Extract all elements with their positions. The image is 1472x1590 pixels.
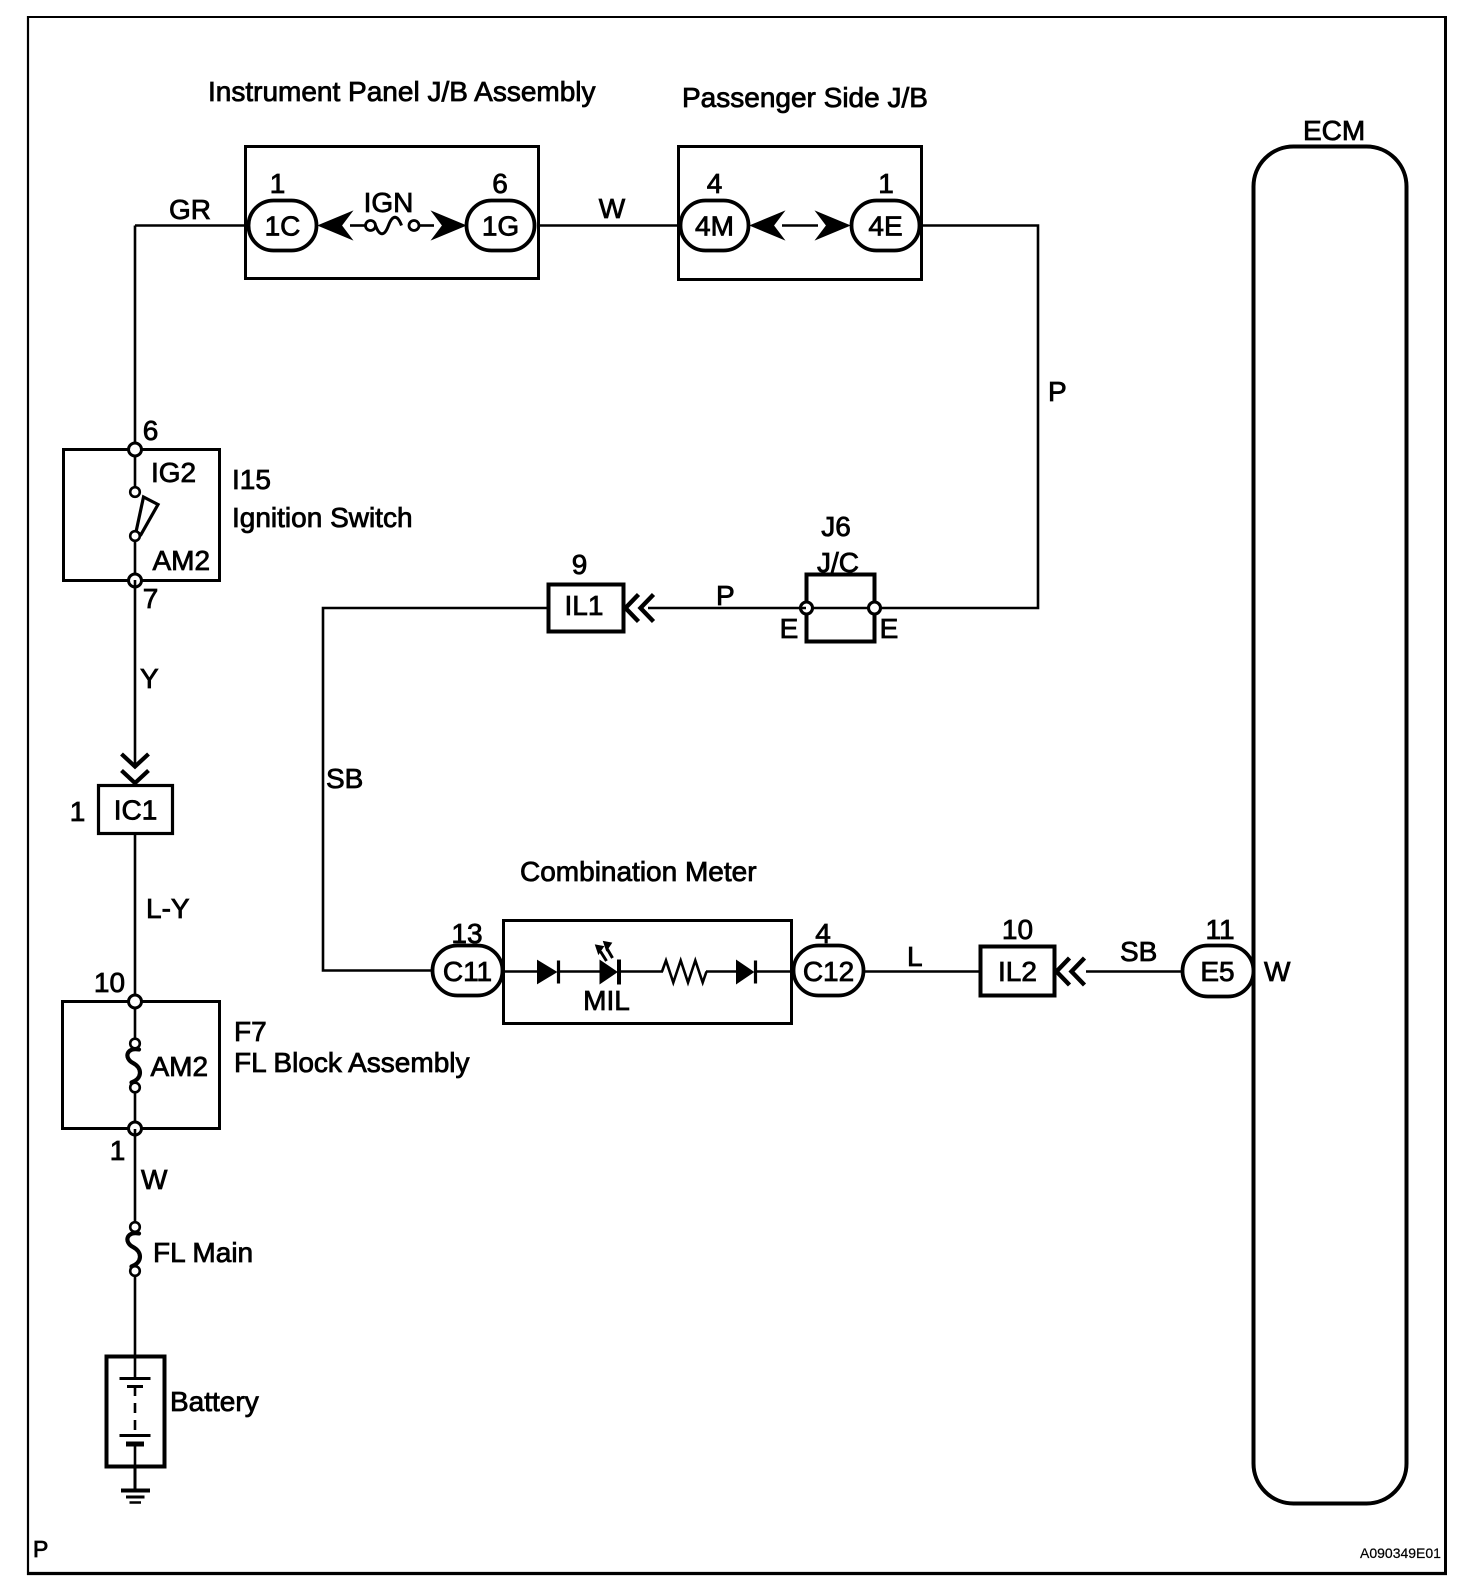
chevron arrows into IC1 bbox=[122, 754, 149, 767]
svg-text:FL Block Assembly: FL Block Assembly bbox=[234, 1047, 469, 1078]
svg-text:ECM: ECM bbox=[1303, 115, 1365, 146]
ground bbox=[121, 1489, 150, 1493]
node E right of J6 bbox=[869, 602, 881, 614]
arrow toward 4E bbox=[816, 212, 850, 240]
connector 4M bbox=[681, 201, 749, 251]
svg-text:9: 9 bbox=[572, 549, 588, 580]
svg-text:Instrument Panel J/B Assembly: Instrument Panel J/B Assembly bbox=[208, 76, 596, 107]
svg-text:Passenger Side J/B: Passenger Side J/B bbox=[682, 82, 928, 113]
fusible link FL Main bbox=[130, 1222, 140, 1232]
connector C12 bbox=[794, 946, 864, 996]
svg-text:1: 1 bbox=[270, 168, 286, 199]
svg-text:1: 1 bbox=[878, 168, 894, 199]
svg-text:FL Main: FL Main bbox=[153, 1237, 253, 1268]
svg-text:A090349E01: A090349E01 bbox=[1360, 1545, 1441, 1561]
wire inside meter bbox=[503, 970, 540, 973]
svg-text:Ignition Switch: Ignition Switch bbox=[232, 502, 413, 533]
chevrons into IL2 bbox=[1057, 958, 1070, 985]
svg-text:IGN: IGN bbox=[364, 187, 414, 218]
svg-text:L-Y: L-Y bbox=[146, 893, 190, 924]
svg-text:AM2: AM2 bbox=[153, 545, 211, 576]
switch contact lower circle bbox=[130, 531, 140, 541]
svg-text:W: W bbox=[599, 193, 626, 224]
LED light arrows bbox=[596, 942, 613, 962]
svg-text:IC1: IC1 bbox=[114, 795, 158, 826]
wire Y vertical bbox=[134, 580, 137, 764]
wire bbox=[350, 224, 366, 227]
arrow toward 4M bbox=[751, 212, 785, 240]
node junction bottom of switch bbox=[129, 574, 142, 587]
svg-text:I15: I15 bbox=[232, 464, 271, 495]
svg-text:E: E bbox=[880, 613, 899, 644]
svg-text:4E: 4E bbox=[868, 211, 902, 242]
wire W vertical bbox=[134, 1129, 137, 1223]
arrow toward 1C bbox=[319, 212, 353, 240]
wire battery to ground bbox=[134, 1467, 137, 1490]
svg-text:4: 4 bbox=[707, 168, 723, 199]
svg-text:Battery: Battery bbox=[170, 1386, 259, 1417]
svg-text:1: 1 bbox=[110, 1135, 126, 1166]
wire to battery bbox=[134, 1276, 137, 1356]
diode D1 bbox=[538, 961, 557, 984]
svg-text:1G: 1G bbox=[482, 211, 519, 242]
svg-text:1C: 1C bbox=[265, 211, 301, 242]
diode D2 bbox=[737, 961, 754, 984]
combination meter box bbox=[504, 921, 792, 1024]
battery bbox=[107, 1357, 165, 1467]
svg-text:C12: C12 bbox=[803, 956, 854, 987]
wire vertical to ignition switch bbox=[134, 226, 137, 450]
wire L-Y vertical bbox=[134, 834, 137, 1001]
connector 4E bbox=[852, 201, 920, 251]
svg-text:W: W bbox=[141, 1164, 168, 1195]
wire GR horizontal bbox=[135, 224, 248, 227]
connector 1G bbox=[467, 201, 535, 251]
svg-text:4M: 4M bbox=[695, 211, 734, 242]
wire SB to E5 bbox=[1086, 970, 1184, 973]
wire P from J6 to IL1 bbox=[648, 607, 806, 610]
svg-text:IL2: IL2 bbox=[998, 956, 1037, 987]
svg-text:F7: F7 bbox=[234, 1016, 267, 1047]
connector IL2 bbox=[981, 947, 1055, 996]
svg-text:J6: J6 bbox=[821, 511, 851, 542]
svg-text:AM2: AM2 bbox=[151, 1051, 209, 1082]
instrument panel J/B box bbox=[246, 147, 539, 279]
connector IC1 bbox=[99, 786, 173, 834]
svg-text:1: 1 bbox=[70, 796, 86, 827]
svg-text:IL1: IL1 bbox=[565, 590, 604, 621]
switch contact upper circle bbox=[134, 449, 137, 487]
svg-text:6: 6 bbox=[492, 168, 508, 199]
chevrons into IL1 bbox=[626, 595, 639, 622]
svg-text:Combination Meter: Combination Meter bbox=[520, 856, 757, 887]
svg-text:P: P bbox=[33, 1536, 48, 1562]
resistor bbox=[662, 961, 707, 983]
svg-text:P: P bbox=[716, 580, 735, 611]
svg-text:E: E bbox=[780, 613, 799, 644]
wire bbox=[419, 224, 434, 227]
node E left of J6 bbox=[801, 602, 813, 614]
wire bbox=[757, 970, 793, 973]
svg-text:SB: SB bbox=[326, 763, 363, 794]
connector C11 bbox=[433, 946, 503, 996]
wire L bbox=[862, 970, 980, 973]
wire P from 4E to junction bbox=[876, 226, 1038, 609]
svg-text:11: 11 bbox=[1205, 914, 1234, 945]
node junction top of F7 bbox=[129, 995, 142, 1008]
svg-text:7: 7 bbox=[143, 583, 159, 614]
svg-text:10: 10 bbox=[94, 967, 125, 998]
wire bbox=[782, 224, 818, 227]
fuse AM2 bbox=[134, 1001, 137, 1039]
connector IL1 bbox=[549, 585, 624, 632]
connector 1C bbox=[249, 201, 317, 251]
svg-text:10: 10 bbox=[1002, 914, 1033, 945]
LED MIL bbox=[600, 961, 617, 984]
svg-text:E5: E5 bbox=[1200, 956, 1234, 987]
svg-text:Y: Y bbox=[140, 663, 159, 694]
node junction top of switch bbox=[129, 443, 142, 456]
arrow toward 1G bbox=[432, 212, 466, 240]
svg-text:P: P bbox=[1048, 376, 1067, 407]
connector E5 bbox=[1183, 946, 1254, 997]
FL block assembly F7 box bbox=[63, 1002, 220, 1129]
ignition switch I15 box bbox=[64, 450, 220, 581]
switch lever bbox=[136, 497, 158, 535]
svg-text:6: 6 bbox=[143, 415, 159, 446]
wire W between J/B boxes bbox=[538, 224, 680, 227]
junction connector J6 box bbox=[807, 575, 875, 642]
svg-text:MIL: MIL bbox=[583, 985, 630, 1016]
wire bbox=[621, 970, 663, 973]
svg-text:L: L bbox=[907, 941, 923, 972]
svg-text:W: W bbox=[1264, 956, 1291, 987]
wire SB from IL1 down to meter bbox=[323, 608, 548, 971]
wire bbox=[706, 970, 737, 973]
svg-text:IG2: IG2 bbox=[151, 457, 196, 488]
node junction bottom of F7 bbox=[129, 1122, 142, 1135]
passenger side J/B box bbox=[679, 147, 922, 280]
svg-text:C11: C11 bbox=[443, 956, 492, 987]
svg-text:GR: GR bbox=[169, 194, 211, 225]
wire bbox=[560, 970, 600, 973]
ECM box bbox=[1254, 147, 1407, 1504]
svg-text:SB: SB bbox=[1120, 936, 1157, 967]
